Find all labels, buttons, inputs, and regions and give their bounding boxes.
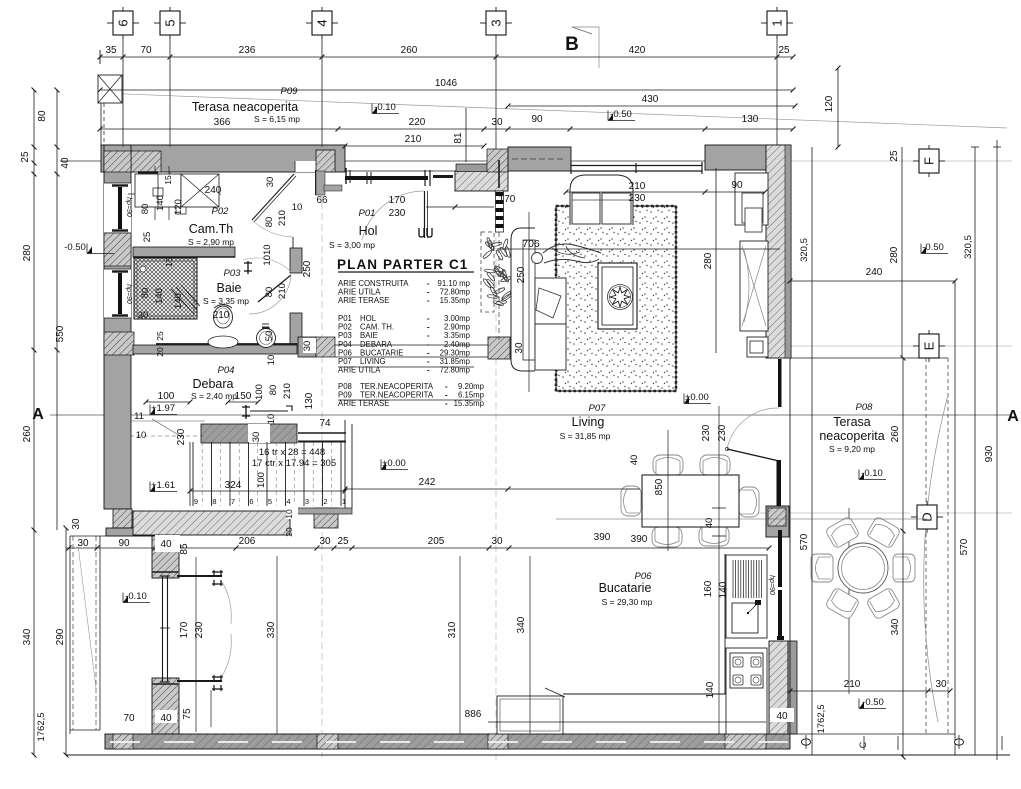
svg-text:210: 210 xyxy=(405,134,422,145)
shower drain xyxy=(140,266,146,272)
wall: kitchen right column xyxy=(766,506,789,537)
wall: top-left (terrace south wall) xyxy=(101,145,345,172)
svg-text:8: 8 xyxy=(212,497,216,506)
closet Cam.Th xyxy=(138,171,158,174)
grid bubble E xyxy=(913,345,919,347)
svg-text:30: 30 xyxy=(251,432,262,443)
svg-text:F: F xyxy=(922,157,937,165)
svg-text:35: 35 xyxy=(105,45,117,56)
svg-text:290: 290 xyxy=(55,628,66,645)
svg-text:30: 30 xyxy=(138,310,149,321)
svg-text:120: 120 xyxy=(173,199,184,215)
svg-text:2: 2 xyxy=(323,497,327,506)
grid bubble D xyxy=(911,516,917,518)
person lying xyxy=(532,253,543,264)
svg-text:242: 242 xyxy=(419,477,436,488)
coffee table xyxy=(598,263,637,329)
wall: Cam.Th right / Hol xyxy=(316,150,335,172)
svg-text:170: 170 xyxy=(499,194,516,205)
svg-text:16 tr x 28 = 448: 16 tr x 28 = 448 xyxy=(259,447,325,458)
svg-text:280: 280 xyxy=(22,244,33,261)
svg-text:P03: P03 xyxy=(224,268,242,279)
svg-text:hp=90: hp=90 xyxy=(125,284,132,304)
svg-text:430: 430 xyxy=(642,94,659,105)
pier hatch bottom wall xyxy=(113,734,133,749)
dim line 170 hol xyxy=(426,206,494,208)
window: hol top (210) xyxy=(346,170,455,172)
svg-text:25: 25 xyxy=(337,536,349,547)
svg-text:25: 25 xyxy=(20,151,31,163)
svg-text:Bucatarie: Bucatarie xyxy=(599,581,652,595)
svg-text:1762,5: 1762,5 xyxy=(36,712,47,741)
svg-text:10: 10 xyxy=(266,414,277,425)
svg-text:Cam.Th: Cam.Th xyxy=(189,222,234,236)
svg-text:230: 230 xyxy=(701,424,712,441)
svg-text:P01: P01 xyxy=(359,208,376,219)
wall: Baie right / Hol xyxy=(290,248,302,273)
doorway center dim line xyxy=(195,557,197,732)
svg-text:25: 25 xyxy=(155,331,165,341)
svg-text:100: 100 xyxy=(158,391,175,402)
svg-text:Living: Living xyxy=(572,415,605,429)
threshold bar top xyxy=(177,575,222,577)
svg-text:81: 81 xyxy=(453,132,464,144)
svg-text:10: 10 xyxy=(292,202,303,213)
entry door swing arcs xyxy=(222,582,231,624)
dims 100/150 lines xyxy=(146,401,190,403)
wall: top right segment xyxy=(705,145,790,170)
hatch opening dashes left of stairs xyxy=(130,420,205,422)
svg-text:P02: P02 xyxy=(212,206,230,217)
svg-text:-0.50: -0.50 xyxy=(64,242,86,253)
door Debara top xyxy=(242,405,250,419)
roof edge line xyxy=(100,93,1007,128)
pier hatch entry corner xyxy=(487,149,508,172)
thin strip below stairs right xyxy=(290,508,352,514)
svg-text:P04: P04 xyxy=(218,365,235,376)
svg-text:1762,5: 1762,5 xyxy=(816,704,827,733)
svg-text:140: 140 xyxy=(718,581,729,598)
stair landing lines xyxy=(298,432,346,434)
svg-text:366: 366 xyxy=(214,117,231,128)
svg-text:324: 324 xyxy=(225,480,242,491)
svg-text:15.35mp: 15.35mp xyxy=(440,296,471,305)
window: living top (south) xyxy=(571,165,702,167)
svg-text:80: 80 xyxy=(264,217,275,228)
fridge unit with louvers xyxy=(732,560,734,598)
svg-text:Terasa: Terasa xyxy=(833,415,871,429)
svg-text:20: 20 xyxy=(155,347,165,357)
svg-text:40: 40 xyxy=(704,518,715,529)
svg-text:75: 75 xyxy=(182,708,193,720)
svg-text:420: 420 xyxy=(629,45,646,56)
svg-text:80: 80 xyxy=(37,110,48,122)
svg-text:220: 220 xyxy=(409,117,426,128)
kitchen tall unit outline xyxy=(726,555,767,638)
pier hatch left mid xyxy=(104,233,131,266)
svg-text:-: - xyxy=(427,296,430,305)
svg-text:70: 70 xyxy=(140,45,152,56)
svg-text:130: 130 xyxy=(304,392,315,409)
wall: Debara south / stair wall xyxy=(201,424,297,443)
svg-text:A: A xyxy=(1007,408,1019,425)
svg-text:4: 4 xyxy=(286,497,290,506)
terrace door arc xyxy=(727,408,779,449)
svg-text:S = 2,90 mp: S = 2,90 mp xyxy=(188,237,234,247)
svg-text:40: 40 xyxy=(160,539,172,550)
svg-text:260: 260 xyxy=(401,45,418,56)
svg-text:210: 210 xyxy=(282,383,293,399)
grid bubble 3 xyxy=(480,22,486,24)
pier hatch bottom wall xyxy=(725,734,766,749)
svg-text:1046: 1046 xyxy=(435,78,458,89)
svg-text:240: 240 xyxy=(205,185,222,196)
svg-text:550: 550 xyxy=(55,325,66,342)
svg-text:90: 90 xyxy=(531,114,543,125)
chairs dining xyxy=(653,455,683,475)
svg-text:30: 30 xyxy=(71,518,82,530)
svg-text:11: 11 xyxy=(134,411,144,422)
svg-text:-0.10: -0.10 xyxy=(374,102,396,113)
svg-text:570: 570 xyxy=(959,538,970,555)
svg-text:S = 3,00 mp: S = 3,00 mp xyxy=(329,240,375,250)
curved leader xyxy=(924,395,948,722)
grid axis lines xyxy=(321,35,323,147)
plant leaves xyxy=(488,240,495,251)
svg-text:4: 4 xyxy=(315,19,330,26)
svg-text:-0.10: -0.10 xyxy=(125,591,147,602)
svg-text:140: 140 xyxy=(154,288,165,304)
svg-text:570: 570 xyxy=(799,533,810,550)
svg-text:330: 330 xyxy=(266,621,277,638)
door Cam.Th leaf+arc xyxy=(252,174,294,220)
svg-text:236: 236 xyxy=(239,45,256,56)
wall: living top-left segment xyxy=(508,147,571,171)
pier hatch top-left xyxy=(113,151,161,172)
svg-text:10: 10 xyxy=(284,509,294,519)
shower door diagonal xyxy=(171,289,194,314)
svg-text:30: 30 xyxy=(491,536,503,547)
svg-text:PLAN PARTER C1: PLAN PARTER C1 xyxy=(337,257,468,272)
wall: right exterior (hatched) xyxy=(766,145,791,358)
svg-text:130: 130 xyxy=(742,114,759,125)
svg-text:15: 15 xyxy=(164,257,174,267)
cabinet bottom small xyxy=(747,337,768,357)
svg-text:930: 930 xyxy=(984,445,995,462)
svg-text:850: 850 xyxy=(654,478,665,495)
column hatched at stairs south xyxy=(314,508,338,528)
door hol (window wall) leaf xyxy=(424,191,426,238)
svg-text:140: 140 xyxy=(173,293,184,309)
svg-text:D: D xyxy=(920,512,935,521)
svg-text:70: 70 xyxy=(123,713,135,724)
dim 120 right top xyxy=(837,68,839,147)
window left 2 (hp=90) xyxy=(104,269,131,318)
svg-text:15.35mp: 15.35mp xyxy=(454,399,485,408)
svg-text:260: 260 xyxy=(22,425,33,442)
section line A-A xyxy=(50,414,1012,416)
svg-text:210: 210 xyxy=(213,310,230,321)
carpet dotted xyxy=(556,206,676,391)
wall: kitchen right lower (hatched) xyxy=(769,641,788,734)
grid bubble F xyxy=(913,160,919,162)
svg-text:B: B xyxy=(565,34,579,55)
toilet xyxy=(214,306,233,328)
cabinet small xyxy=(745,208,762,232)
wall: stair north wall + hatch pier xyxy=(298,337,316,357)
round table xyxy=(838,543,888,593)
door Baie hardware xyxy=(244,261,252,274)
top dim chain row1 xyxy=(100,56,793,58)
shower tray xyxy=(134,258,197,319)
dim 242 xyxy=(345,488,640,490)
svg-text:340: 340 xyxy=(890,618,901,635)
door Baie leaf+arc xyxy=(258,275,291,302)
pier hatch left top xyxy=(104,151,131,172)
window left 1 (hp=90) xyxy=(104,183,131,233)
svg-text:-0.50: -0.50 xyxy=(610,109,632,120)
svg-text:25: 25 xyxy=(889,150,900,162)
svg-text:30: 30 xyxy=(514,342,525,354)
svg-text:S = 6,15 mp: S = 6,15 mp xyxy=(254,114,300,124)
svg-text:neacoperita: neacoperita xyxy=(819,429,884,443)
wall: Cam.Th / Baie divider xyxy=(133,247,235,257)
svg-text:390: 390 xyxy=(631,534,648,545)
wall: below stairs hatched band xyxy=(133,511,290,535)
svg-text:C: C xyxy=(858,741,868,748)
svg-text:5: 5 xyxy=(268,497,272,506)
svg-text:85: 85 xyxy=(179,543,190,555)
svg-text:340: 340 xyxy=(516,616,527,633)
svg-text:80: 80 xyxy=(268,385,279,396)
svg-text:240: 240 xyxy=(866,267,883,278)
svg-text:17 ctr x 17.94 = 305: 17 ctr x 17.94 = 305 xyxy=(252,458,336,469)
svg-text:210: 210 xyxy=(844,679,861,690)
svg-text:30: 30 xyxy=(491,117,503,128)
svg-text:40: 40 xyxy=(160,713,172,724)
svg-text:25: 25 xyxy=(142,232,153,243)
svg-text:5: 5 xyxy=(163,19,178,26)
pier hatch bottom wall xyxy=(317,734,338,749)
svg-text:40: 40 xyxy=(776,711,788,722)
white box 40 right bottom xyxy=(770,708,794,722)
living dims xyxy=(497,248,780,250)
grid bubble 5 xyxy=(154,22,160,24)
svg-text:10: 10 xyxy=(136,430,147,441)
svg-text:80: 80 xyxy=(140,204,151,215)
svg-text:S = 2,40 mp: S = 2,40 mp xyxy=(191,391,237,401)
grid bubble 1 xyxy=(761,22,767,24)
stair dim line 324 xyxy=(190,490,345,492)
mid dim chain y548 xyxy=(66,547,769,549)
svg-text:320,5: 320,5 xyxy=(799,238,810,262)
svg-text:340: 340 xyxy=(22,628,33,645)
svg-text:205: 205 xyxy=(428,536,445,547)
top-left terrace pillar xyxy=(98,75,122,103)
svg-text:P08: P08 xyxy=(856,402,874,413)
svg-text:280: 280 xyxy=(703,252,714,269)
column hatched at hol/living xyxy=(488,337,510,359)
svg-text:140: 140 xyxy=(155,195,166,211)
plant dashed box xyxy=(481,232,494,312)
svg-text:260: 260 xyxy=(890,425,901,442)
svg-text:hp=90: hp=90 xyxy=(768,575,775,595)
svg-text:-0.50: -0.50 xyxy=(862,697,884,708)
svg-text:100: 100 xyxy=(256,472,267,488)
svg-text:3: 3 xyxy=(305,497,309,506)
svg-text:150: 150 xyxy=(235,391,252,402)
wall: lower-left exterior with entrance door xyxy=(152,536,179,578)
svg-text:80: 80 xyxy=(140,288,151,299)
pillow xyxy=(536,288,561,318)
svg-text:30: 30 xyxy=(319,536,331,547)
svg-text:230: 230 xyxy=(389,208,406,219)
svg-text:P07: P07 xyxy=(589,403,607,414)
svg-text:310: 310 xyxy=(447,621,458,638)
svg-text:250: 250 xyxy=(302,260,313,277)
section cut strip xyxy=(496,191,504,232)
svg-text:20: 20 xyxy=(284,527,294,537)
svg-text:50: 50 xyxy=(264,331,275,342)
kitchen sink cabinet xyxy=(497,696,563,734)
svg-text:74: 74 xyxy=(319,418,331,429)
svg-text:-0.10: -0.10 xyxy=(861,468,883,479)
dim 210/30 bottom right xyxy=(790,690,950,692)
bay window dashed xyxy=(72,536,74,730)
right dim chains xyxy=(811,147,813,755)
dining table xyxy=(642,475,739,527)
svg-text:30: 30 xyxy=(265,177,276,188)
pier hatch left lower xyxy=(104,332,134,355)
svg-text:15: 15 xyxy=(163,175,173,185)
svg-text:25: 25 xyxy=(778,45,790,56)
svg-text:30: 30 xyxy=(935,679,947,690)
dim 81 vertical xyxy=(465,108,467,162)
sofa left xyxy=(511,228,535,371)
entrance door leaves xyxy=(152,571,178,573)
pier hatch bottom wall xyxy=(488,734,508,749)
axis line F horizontal xyxy=(60,160,790,162)
svg-text:170: 170 xyxy=(389,195,406,206)
svg-text:210: 210 xyxy=(629,181,646,192)
small shelf xyxy=(176,207,186,214)
stairs treads xyxy=(192,442,194,506)
window right kitchen (hp=90) xyxy=(778,530,782,637)
star decor xyxy=(608,285,633,310)
svg-text:280: 280 xyxy=(889,246,900,263)
svg-text:1: 1 xyxy=(342,497,346,506)
bottom axis markers xyxy=(802,739,811,745)
svg-text:Debara: Debara xyxy=(193,377,234,391)
svg-text:320,5: 320,5 xyxy=(963,235,974,259)
svg-text:6: 6 xyxy=(249,497,253,506)
terrace chairs xyxy=(825,516,860,549)
svg-text:Hol: Hol xyxy=(359,224,378,238)
svg-text:90: 90 xyxy=(118,538,130,549)
wall: corner band xyxy=(106,528,159,536)
svg-text:250: 250 xyxy=(516,266,527,283)
right terrace dims xyxy=(902,358,904,757)
kitchen sink square xyxy=(732,603,758,633)
grid bubble 4 xyxy=(306,22,312,24)
stove 4 burners xyxy=(730,653,763,688)
closet mirror box with X xyxy=(181,174,219,207)
dim 1046 xyxy=(100,89,793,91)
svg-text:80: 80 xyxy=(264,287,275,298)
svg-text:206: 206 xyxy=(239,536,256,547)
svg-text:hp=90: hp=90 xyxy=(125,197,132,217)
door/window frames right side xyxy=(778,359,782,407)
svg-text:S = 29,30 mp: S = 29,30 mp xyxy=(602,597,653,607)
stairwell right boundary xyxy=(344,420,346,508)
svg-text:1010: 1010 xyxy=(262,244,273,265)
svg-text:30: 30 xyxy=(302,341,313,352)
svg-text:170: 170 xyxy=(179,621,190,638)
svg-text:160: 160 xyxy=(703,580,714,597)
svg-text:S = 9,20 mp: S = 9,20 mp xyxy=(829,444,875,454)
threshold bar bottom xyxy=(177,680,222,682)
grid bubble 6 xyxy=(107,22,113,24)
svg-text:9: 9 xyxy=(194,497,198,506)
svg-text:100: 100 xyxy=(254,384,265,400)
svg-text:210: 210 xyxy=(277,283,288,299)
svg-text:40: 40 xyxy=(629,455,640,466)
svg-text:40: 40 xyxy=(60,157,71,169)
svg-text:706: 706 xyxy=(522,238,540,250)
wall: Baie / Debara divider xyxy=(133,345,297,354)
svg-text:210: 210 xyxy=(277,210,288,226)
wall: left exterior xyxy=(104,145,131,509)
svg-text:390: 390 xyxy=(594,532,611,543)
svg-text:230: 230 xyxy=(176,428,187,445)
svg-text:S = 3,35 mp: S = 3,35 mp xyxy=(203,296,249,306)
dim 430 xyxy=(508,105,795,107)
svg-text:1: 1 xyxy=(770,19,785,26)
svg-text:P09: P09 xyxy=(281,86,299,97)
vertical interior dim lines bottom xyxy=(276,556,278,734)
svg-text:230: 230 xyxy=(194,621,205,638)
svg-text:E: E xyxy=(922,341,937,350)
svg-text:ARIE TERASE: ARIE TERASE xyxy=(338,296,389,305)
svg-text:Terasa neacoperita: Terasa neacoperita xyxy=(192,100,298,114)
terrace floor edge lines xyxy=(790,357,948,359)
svg-text:230: 230 xyxy=(629,193,646,204)
kitchen counter edge xyxy=(563,693,726,695)
cabinet right top (TV unit) xyxy=(735,173,768,225)
svg-text:90: 90 xyxy=(731,180,743,191)
svg-text:140: 140 xyxy=(705,681,716,698)
svg-text:7: 7 xyxy=(231,497,235,506)
wall: entry corner block xyxy=(455,171,508,191)
svg-text:66: 66 xyxy=(316,195,328,206)
pier hatch left bottom corner xyxy=(113,509,132,528)
svg-text:10: 10 xyxy=(266,355,277,366)
svg-text:Baie: Baie xyxy=(216,281,241,295)
dashed pergola lines xyxy=(925,358,927,734)
armchair top (two-seat) xyxy=(570,175,633,225)
dim 240 right xyxy=(790,280,955,282)
mark = xyxy=(262,323,269,325)
bottom wall center dashes xyxy=(110,741,788,743)
svg-text:6: 6 xyxy=(116,19,131,26)
svg-text:ARIE TERASE: ARIE TERASE xyxy=(338,399,389,408)
svg-text:3: 3 xyxy=(489,19,504,26)
svg-text:S = 31,85 mp: S = 31,85 mp xyxy=(560,431,611,441)
sink Baie xyxy=(257,329,276,348)
glass cabinet with X xyxy=(740,241,768,331)
dim row terrace xyxy=(100,128,793,130)
svg-text:120: 120 xyxy=(824,95,835,112)
